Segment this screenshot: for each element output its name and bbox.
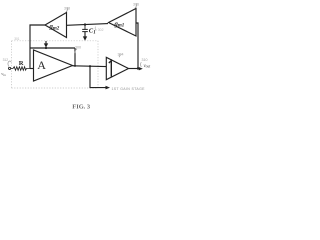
node X vertical wire [30,25,45,69]
junction dot output node [137,67,139,69]
svg-text:A: A [37,58,46,72]
svg-text:1ST GAIN STAGE: 1ST GAIN STAGE [112,87,146,91]
wire input to amp A [30,68,34,70]
svg-text:308: 308 [64,7,70,11]
svg-text:FIG. 3: FIG. 3 [72,104,90,111]
svg-text:306: 306 [133,3,139,7]
wire buffer output [129,68,140,70]
vout numeral leader [140,62,143,67]
junction dot node F [45,47,47,49]
wire top gm1 to gm2 [67,24,109,26]
gm2 numeral leader [66,8,68,13]
buffer numeral leader [119,54,120,57]
svg-text:vin: vin [1,71,6,77]
op-amp A [34,50,73,81]
dashed box first gain stage [12,41,99,88]
svg-text:310: 310 [142,58,148,62]
svg-text:301: 301 [14,37,20,41]
wire feedforward down to output [74,48,76,66]
wire gm1 input from output node [136,23,138,69]
feedforward wire [30,47,75,49]
gm2 triangle [45,13,67,38]
gm1 numeral leader [135,4,137,9]
svg-text:R: R [19,60,24,67]
svg-text:302: 302 [98,28,104,32]
arrow to stage label [106,86,111,90]
wire down to stage label arrow [90,66,106,87]
arrow C1 into box [83,36,87,40]
svg-text:vout: vout [144,64,152,69]
buffer triangle [106,57,128,79]
resistor R [11,67,30,71]
wire A output [73,65,107,68]
junction dot feedforward join [74,65,76,67]
svg-text:304: 304 [118,53,124,57]
svg-text:gm2: gm2 [49,24,60,32]
input terminal circle [9,67,11,69]
numeral 300 leader [75,49,77,53]
svg-text:gm1: gm1 [114,21,125,29]
svg-text:300: 300 [75,46,81,50]
svg-text:312: 312 [3,58,9,62]
numeral 302 leader [95,27,96,31]
arrow into wire at node [45,41,47,44]
svg-text:C1: C1 [89,28,96,36]
junction dot buffer input node [89,65,91,67]
junction dot C1 tap [84,23,86,25]
unity gain 1 symbol [109,61,112,77]
arrow vout [139,67,143,70]
gm1 triangle [109,9,137,37]
capacitor C1 [84,25,86,29]
input leader numeral 312 [8,61,11,67]
